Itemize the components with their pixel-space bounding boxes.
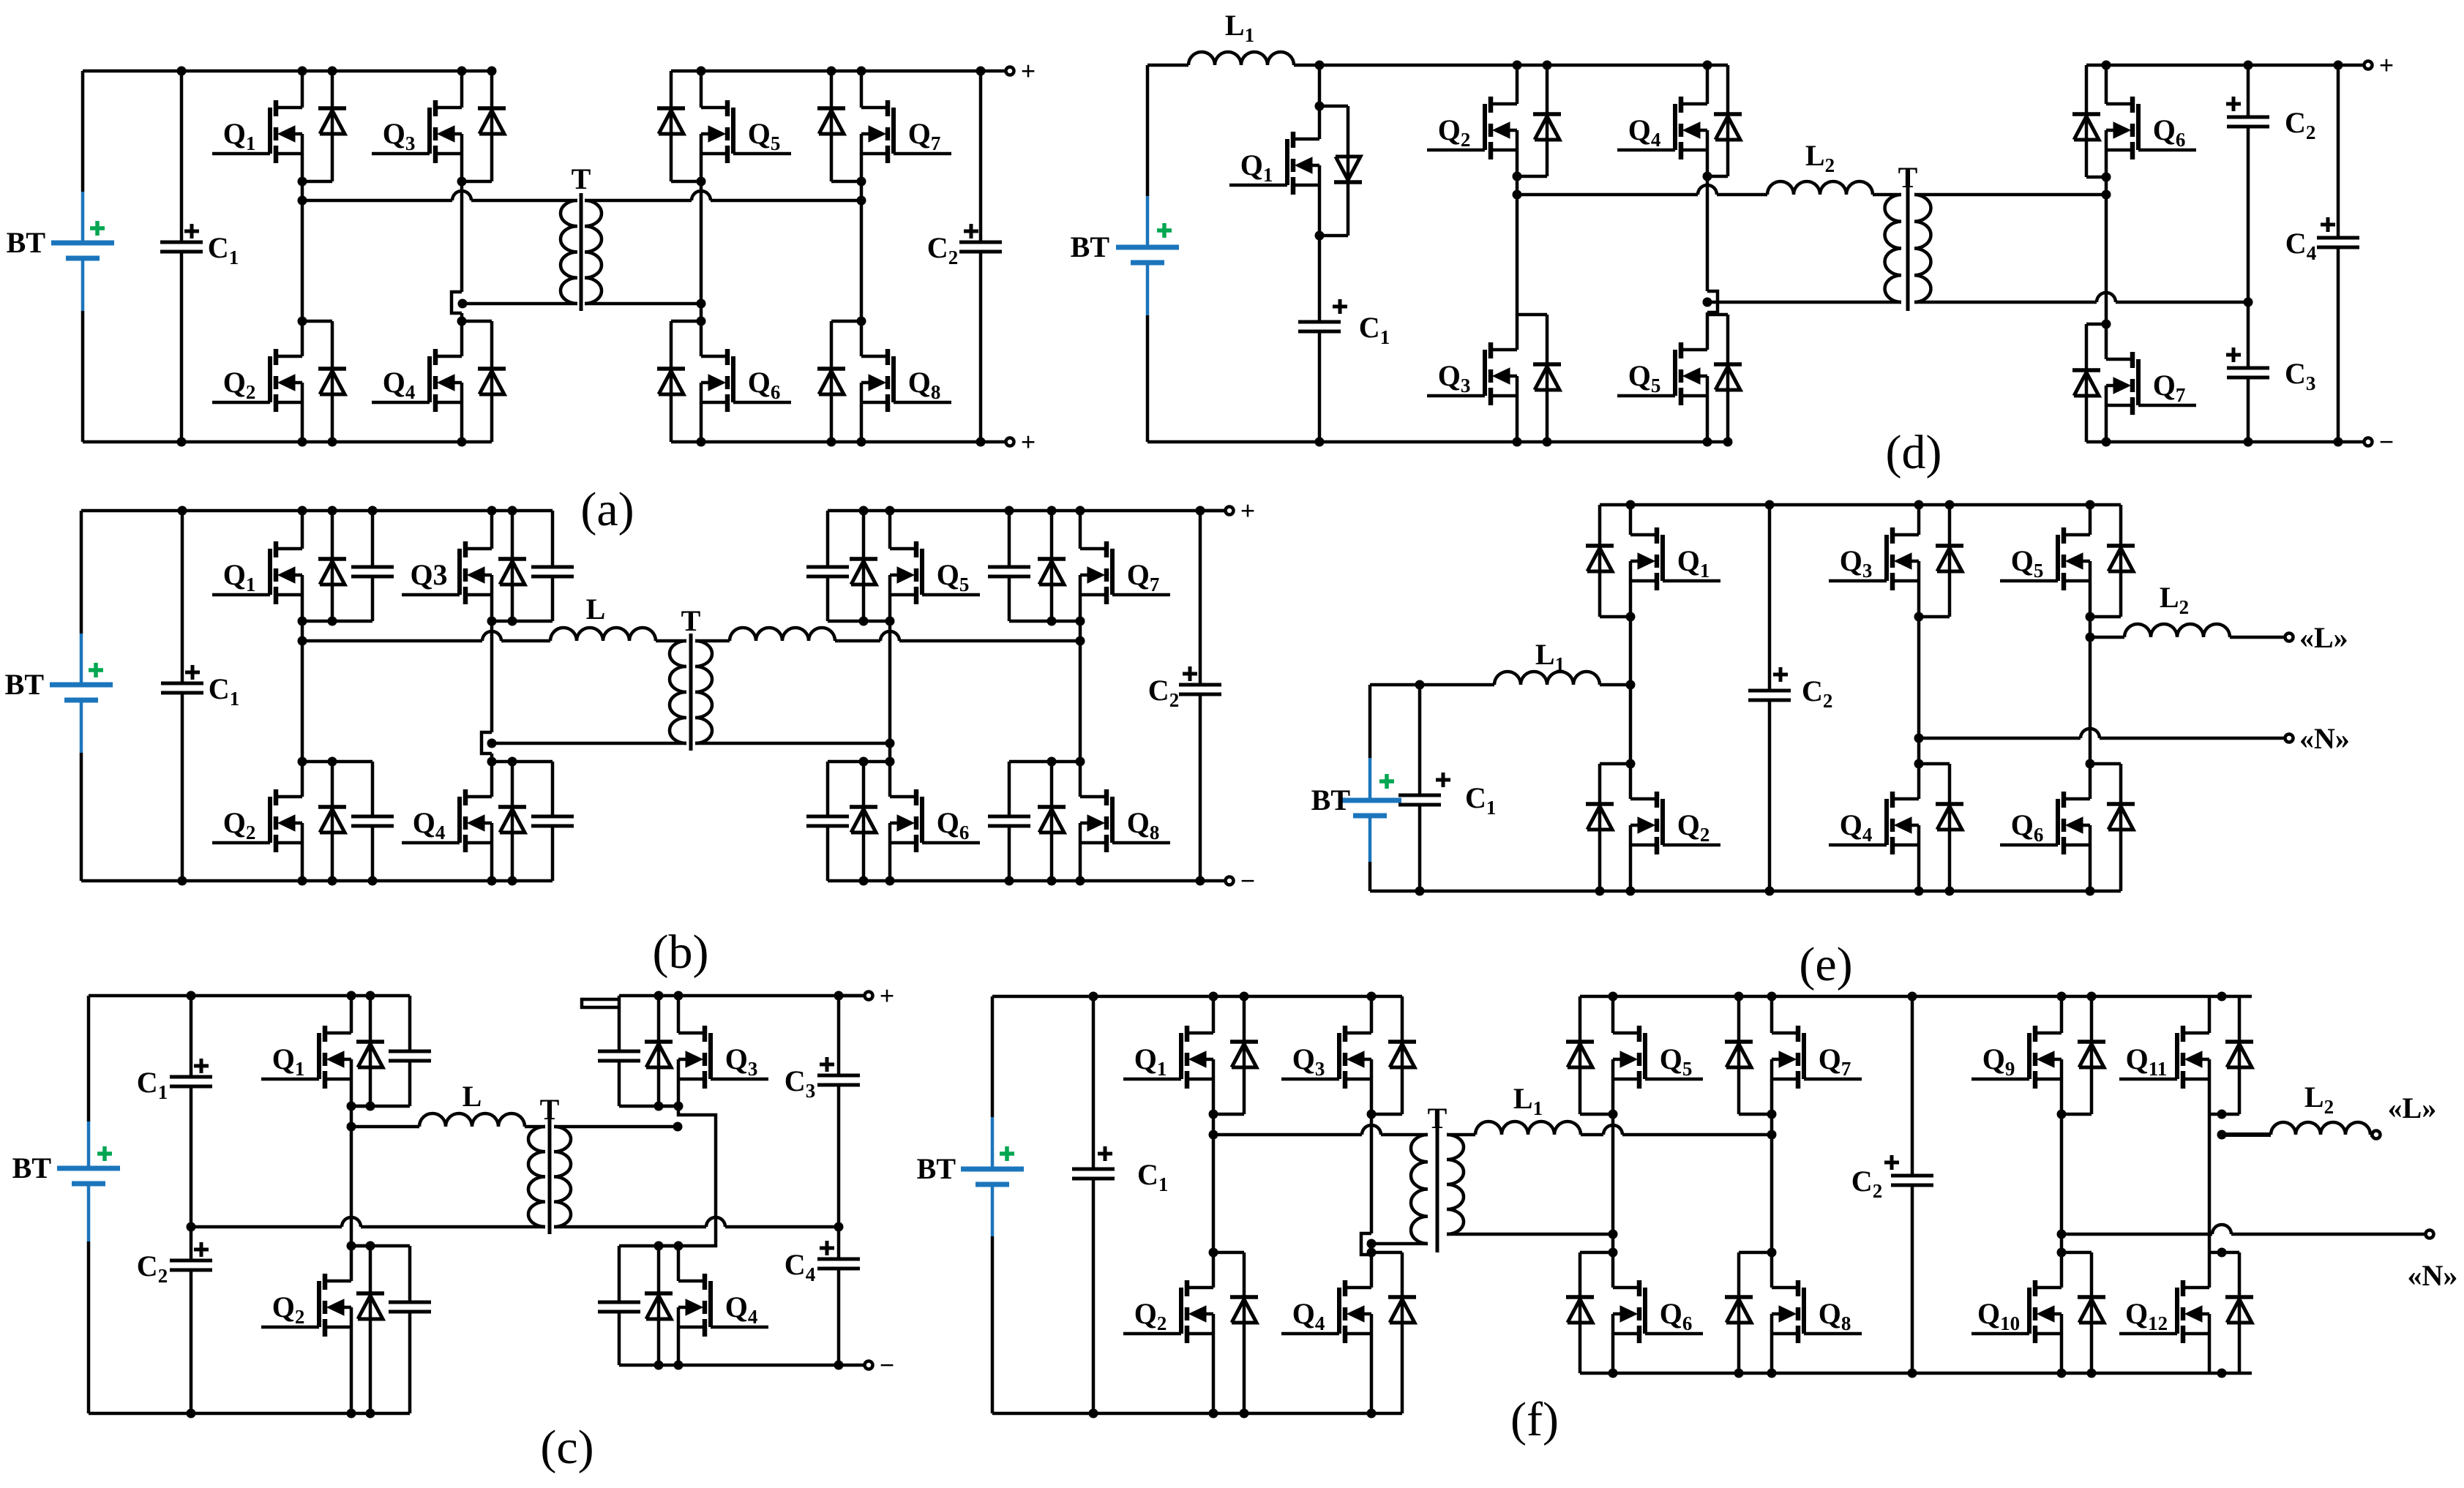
wire hop (706, 1217, 725, 1227)
diode of Q2 (d) (1517, 65, 1561, 176)
wire hop over leg (692, 191, 711, 200)
svg-text:−: − (2379, 427, 2394, 456)
diode of Q4 (a) (462, 321, 506, 442)
wire: (f) N lead (2062, 1233, 2212, 1236)
wire: (e) input lead (1370, 683, 1494, 687)
diode of Q3 (a) (462, 71, 506, 181)
svg-text:+: + (880, 981, 895, 1010)
wire hop (2097, 293, 2116, 302)
transformer T (b) (670, 604, 712, 751)
diode of Q1 (b) (318, 511, 346, 621)
junction dots (b) (178, 506, 1205, 886)
wire: (d) battery column (1146, 65, 1150, 196)
svg-text:Q3: Q3 (410, 558, 447, 591)
wire: (a) leg x=1177 (860, 71, 864, 108)
capacitor C1 (f) (1092, 996, 1096, 1169)
wire: (a) secondary top rail (671, 69, 1006, 73)
transistor Q4 (f) (1281, 1280, 1371, 1343)
wire: (d) secondary top rail (2086, 64, 2368, 67)
wire: (e) leg x=2228 (1629, 505, 1633, 535)
wire: (f) primary top rail (992, 995, 1402, 999)
transistor Q3 (a) (372, 100, 462, 163)
capacitor C2 (c) (190, 1086, 193, 1260)
transistor Q8 (a) (861, 349, 951, 412)
capacitor C1 (c) (190, 996, 193, 1077)
wire: (b) primary bottom rail (81, 879, 553, 883)
wire: (c) secondary top rail (619, 994, 864, 998)
transistor Q3 (f) (1281, 1026, 1371, 1089)
svg-text:(d): (d) (1886, 426, 1942, 479)
diode of Q4 (e) (1919, 764, 1963, 891)
svg-text:+: + (1021, 427, 1036, 456)
wire: (c) mid rail (191, 1225, 342, 1229)
inductor L2 (d) (1767, 139, 1873, 195)
wire: (d) leg x=2333 (1706, 65, 1710, 104)
transistor Q5 (f) (1613, 1026, 1703, 1089)
capacitor C1 (d) (1298, 299, 1390, 348)
terminal − (d) (2364, 438, 2373, 446)
diode of Q5 (b) (850, 511, 877, 621)
capacitor C1 (e) (1398, 773, 1496, 819)
wire: jog around transformer tap (482, 732, 492, 754)
wire: (e) battery column (1368, 685, 1372, 758)
diode of Q1 (d) (1334, 106, 1362, 236)
diode of Q4 (b) (498, 762, 526, 881)
transistor Q5 (b) (890, 541, 980, 604)
transistor Q1 (f) (1123, 1026, 1213, 1089)
svg-text:BT: BT (1071, 230, 1110, 263)
wire: (b) leg x=1476 (1079, 511, 1082, 549)
capacitor C2 (b) (1199, 511, 1202, 685)
snubber capacitor of Q8 (b) (988, 762, 1080, 881)
transistor Q3 (c) (678, 1026, 768, 1089)
svg-text:(c): (c) (540, 1421, 593, 1474)
wire: (f) leg x=3019 (2208, 996, 2212, 1033)
capacitor C1 (b) (161, 665, 239, 710)
transistor Q2 (e) (1630, 792, 1720, 854)
battery BT (d) (1071, 196, 1179, 315)
battery BT (c) (12, 1121, 120, 1241)
snubber capacitor of Q1 (b) (302, 511, 394, 621)
junction dots (a) (177, 67, 986, 447)
snubber capacitor of Q3 (b) (492, 511, 574, 621)
diode of Q3 (e) (1919, 505, 1963, 617)
wire: (f) secondary top rail (1580, 995, 2252, 999)
snubber capacitor of Q2 (c) (351, 1246, 431, 1413)
wire hop (1603, 1125, 1622, 1135)
transistor Q5 (d) (1617, 342, 1707, 405)
wire hop (880, 631, 899, 641)
wire: (c) phase lead + inductor L (351, 1125, 419, 1129)
wire: (d) secondary bottom lead (1914, 301, 2097, 304)
capacitor C1 (a) (160, 224, 239, 268)
svg-text:«L»: «L» (2299, 621, 2348, 654)
transistor Q4 (d) (1617, 97, 1707, 159)
snubber capacitor of Q1 (c) (351, 996, 431, 1106)
svg-text:−: − (880, 1350, 895, 1380)
transistor Q2 (d) (1427, 97, 1517, 159)
transistor Q11 (f) (2119, 1026, 2209, 1089)
snubber capacitor of Q3 (c) (598, 996, 678, 1106)
wire hop over leg (452, 191, 471, 200)
transistor Q8 (b) (1080, 789, 1170, 852)
diode of Q11 (f) (2209, 996, 2253, 1114)
wire: (a) secondary bottom rail (671, 440, 1006, 444)
capacitor C4 (d) (2285, 217, 2359, 264)
snubber capacitor of Q2 (b) (302, 762, 394, 881)
wire: (b) leg x=1216 (888, 511, 892, 549)
wire: diode jogs Q1 (d) (1319, 105, 1348, 108)
svg-text:−: − (1240, 866, 1256, 895)
wire hop (1362, 1125, 1381, 1135)
wire: (b) leg x=413 (301, 511, 304, 549)
wire: (b) secondary top lead with series bumps (695, 639, 730, 643)
wire: (b) primary return lead (492, 742, 686, 745)
diode of Q6 (f) (1566, 1252, 1613, 1373)
transistor Q1 (a) (212, 100, 302, 163)
diode of Q12 (f) (2209, 1252, 2253, 1373)
transistor Q2 (c) (261, 1274, 351, 1337)
terminal + (d) (2364, 61, 2373, 69)
wire: (c) secondary leg zigzag (678, 1106, 716, 1246)
transistor Q7 (d) (2106, 352, 2196, 415)
svg-text:T: T (1898, 161, 1918, 194)
wire: (d) primary top rail (1147, 64, 1188, 67)
snubber capacitor of Q7 (b) (988, 511, 1080, 621)
wire: (c) secondary top lead (554, 1125, 678, 1129)
capacitor C2 (e) (1748, 667, 1832, 712)
transistor Q12 (f) (2119, 1280, 2209, 1343)
terminal N (e) (2285, 734, 2293, 743)
capacitor C1 (f) (1072, 1146, 1168, 1195)
transistor Q9 (f) (1971, 1026, 2062, 1089)
capacitor C4 (d) (2337, 65, 2340, 238)
svg-text:BT: BT (7, 226, 46, 259)
wire: (e) top rail (1600, 503, 2121, 507)
diode of Q2 (f) (1213, 1252, 1258, 1413)
diode of Q8 (b) (1038, 762, 1066, 881)
inductor L1 (d) (1188, 9, 1294, 65)
diode of Q10 (f) (2062, 1252, 2105, 1373)
junction dots (f) (1089, 992, 2227, 1419)
wire: (c) output + (839, 994, 864, 998)
diode of Q8 (a) (817, 321, 861, 442)
transistor Q5 (a) (701, 100, 791, 163)
diode of Q5 (e) (2090, 505, 2135, 617)
wire: (a) leg x=413 (301, 71, 304, 108)
wire: (c) top rail primary (89, 994, 410, 998)
wire: (f) primary return lead (1371, 1242, 1428, 1246)
snubber capacitor of Q4 (c) (598, 1246, 678, 1365)
wire: (d) leg x=2073 (1516, 65, 1519, 104)
diode of Q3 (d) (1517, 315, 1561, 442)
transistor Q10 (f) (1971, 1280, 2062, 1343)
inductor L1 (f) (1475, 1082, 1581, 1135)
inductor L1 (e) (1494, 638, 1600, 685)
wire: (b) secondary bottom lead (695, 742, 890, 745)
wire: (d) phase lead (1517, 193, 1698, 197)
wire: (e) leg x=2622 (1917, 505, 1921, 535)
wire: (f) leg x=2204 (1611, 996, 1615, 1033)
diode of Q5 (d) (1707, 315, 1742, 442)
svg-text:BT: BT (1311, 784, 1351, 816)
transistor Q3 (d) (1427, 342, 1517, 405)
capacitor C3 (c) (784, 1057, 860, 1102)
wire hop (1698, 185, 1717, 195)
transistor Q1 (b) (212, 541, 302, 604)
terminal − (b) (1226, 877, 1234, 885)
svg-text:T: T (540, 1093, 560, 1126)
wire: (b) phase lead to L (302, 639, 482, 643)
wire: (c) leg x=480 (350, 996, 353, 1033)
transistor Q4 (e) (1829, 792, 1919, 854)
diode of Q4 (d) (1707, 65, 1742, 176)
diode of Q7 (d) (2072, 324, 2106, 442)
wire: jog around transformer tap (1707, 291, 1718, 312)
transistor Q6 (a) (701, 349, 791, 412)
transformer T (c) (528, 1093, 571, 1234)
svg-text:«N»: «N» (2299, 722, 2350, 755)
diode of Q5 (f) (1566, 996, 1613, 1114)
transistor Q4 (b) (402, 789, 492, 852)
transistor Q7 (a) (861, 100, 951, 163)
wire: (f) L2 lead (2222, 1132, 2271, 1137)
wire: (e) N lead (1919, 737, 2081, 740)
wire: (b) output top (1200, 509, 1225, 513)
diode of Q3 (c) (645, 996, 678, 1106)
transistor Q3 (b) (402, 541, 492, 604)
wire: (a) secondary top lead (585, 199, 692, 203)
transformer T (d) (1885, 161, 1931, 311)
svg-text:(b): (b) (653, 925, 709, 979)
diode of Q9 (f) (2062, 996, 2105, 1114)
svg-text:BT: BT (917, 1152, 956, 1185)
svg-text:«N»: «N» (2408, 1259, 2458, 1292)
capacitor C1 (e) (1418, 685, 1422, 795)
wire: (a) primary bottom lead (463, 302, 577, 306)
svg-text:+: + (1021, 56, 1036, 86)
transistor Q2 (f) (1123, 1280, 1213, 1343)
wire: (f) primary top lead (1213, 1133, 1362, 1137)
svg-text:BT: BT (5, 668, 45, 701)
wire: (f) secondary bottom rail (1580, 1372, 2252, 1375)
terminal + (c) (865, 992, 873, 1000)
transistor Q6 (b) (890, 789, 980, 852)
terminal L (f) (2373, 1131, 2381, 1139)
svg-text:L: L (463, 1080, 482, 1113)
diode of Q4 (f) (1371, 1252, 1416, 1413)
wire: (f) leg x=1874 (1370, 996, 1374, 1033)
svg-text:T: T (572, 162, 591, 195)
wire: (d) Q1 branch column (1318, 65, 1322, 139)
diode of Q1 (e) (1586, 505, 1630, 617)
diode of Q4 (c) (645, 1246, 678, 1365)
junction dots (c) (187, 991, 844, 1419)
wire: (f) leg x=2421 (1770, 996, 1774, 1033)
capacitor C1 (a) (180, 71, 184, 242)
wire: (b) leg x=672 (490, 511, 494, 549)
transistor Q7 (b) (1080, 541, 1170, 604)
diode of Q2 (c) (351, 1246, 384, 1413)
wire: (e) bottom rail (1370, 890, 2121, 893)
capacitor C2 (d) (2247, 65, 2250, 117)
transistor Q6 (d) (2106, 97, 2196, 159)
svg-text:T: T (1428, 1102, 1448, 1135)
diode of Q6 (e) (2090, 764, 2135, 891)
capacitor C3 (c) (837, 996, 841, 1075)
inductor L2 (f) (2271, 1081, 2370, 1135)
transistor Q8 (f) (1772, 1280, 1862, 1343)
diode of Q2 (e) (1586, 764, 1630, 891)
wire hop (342, 1217, 361, 1227)
diode of Q8 (f) (1725, 1252, 1772, 1373)
wire: (c) battery column (87, 996, 91, 1121)
svg-text:(e): (e) (1799, 938, 1852, 991)
wire: (d) primary return lead (1707, 301, 1901, 304)
svg-text:(a): (a) (580, 483, 634, 536)
diode of Q7 (f) (1725, 996, 1772, 1114)
terminal + (a) top (1006, 67, 1014, 75)
wire: (a) primary bottom rail (83, 440, 492, 444)
battery BT (e) (1311, 758, 1401, 862)
snubber capacitor of Q5 (b) (806, 511, 890, 621)
capacitor C1 (b) (181, 511, 184, 683)
terminal L (e) (2285, 634, 2293, 642)
inductor L2 (e) (2124, 581, 2230, 637)
wire: (c) bottom rail primary (89, 1412, 410, 1416)
wire: (d) bottom rail (1147, 440, 1728, 444)
diode of Q6 (a) (657, 321, 701, 442)
capacitor C3 (d) (2247, 302, 2250, 368)
svg-text:T: T (681, 604, 701, 637)
svg-text:«L»: «L» (2388, 1091, 2437, 1124)
capacitor C3 (d) (2226, 347, 2315, 394)
svg-text:BT: BT (12, 1151, 52, 1184)
capacitor C2 (b) (1148, 666, 1221, 711)
wire: L to transformer (656, 639, 686, 643)
snubber capacitor of Q4 (b) (492, 762, 574, 881)
terminal + (b) (1226, 507, 1234, 515)
wire: (f) battery column (991, 996, 995, 1117)
wire: (f) leg x=1658 (1212, 996, 1216, 1033)
transistor Q2 (a) (212, 349, 302, 412)
capacitor C4 (c) (784, 1241, 860, 1285)
diode of Q1 (f) (1213, 996, 1258, 1114)
terminal − (c) (865, 1361, 873, 1369)
capacitor C2 (d) (2226, 97, 2315, 143)
battery BT (a) (7, 192, 114, 311)
junction dots (e) (1415, 500, 2095, 896)
wire: (c) secondary bottom rail (619, 1364, 864, 1367)
wire: (c) secondary bottom lead (554, 1225, 706, 1229)
transistor Q1 (c) (261, 1026, 351, 1089)
wire: jog around transformer tap (452, 292, 462, 313)
capacitor C2 (a) (979, 71, 983, 242)
diode of Q2 (b) (318, 762, 346, 881)
wire: (f) primary bottom rail (992, 1412, 1402, 1416)
transformer T (f) (1411, 1102, 1464, 1252)
transistor Q4 (a) (372, 349, 462, 412)
transistor Q6 (e) (2000, 792, 2090, 854)
transistor Q6 (f) (1613, 1280, 1703, 1343)
terminal N (f) (2426, 1230, 2434, 1239)
wire: (d) secondary leg x=2878 (2105, 65, 2108, 104)
diode of Q7 (a) (817, 71, 861, 181)
wire: (a) secondary bottom lead (585, 302, 701, 306)
wire: jog around transformer tap (1361, 1233, 1371, 1255)
wire: (b) primary top rail (81, 509, 553, 513)
diode of Q6 (b) (850, 762, 877, 881)
diode of Q1 (c) (351, 996, 384, 1106)
diode of Q3 (b) (498, 511, 526, 621)
wire: (d) secondary top lead (1914, 193, 2106, 197)
junction dots (d) (1315, 61, 2343, 447)
terminal + (a) bottom (1006, 438, 1014, 446)
transistor Q7 (f) (1772, 1026, 1862, 1089)
wire hop (482, 631, 501, 641)
capacitor C4 (c) (837, 1227, 841, 1259)
capacitor C2 (c) (137, 1242, 212, 1287)
transistor Q3 (e) (1829, 527, 1919, 590)
inductor L (c) (419, 1080, 525, 1127)
capacitor C2 (f) (1911, 996, 1914, 1176)
wire: (e) leg x=2856 (2089, 505, 2092, 535)
wire: (a) primary top lead (302, 199, 452, 203)
wire: (b) secondary bottom rail (828, 879, 1225, 883)
diode of Q1 (a) (302, 71, 346, 181)
capacitor C2 (f) (1851, 1155, 1933, 1202)
wire: (b) battery column (80, 511, 83, 634)
svg-text:+: + (1240, 496, 1256, 525)
svg-text:+: + (2379, 50, 2394, 80)
wire hop (2081, 729, 2100, 738)
battery BT (f) (917, 1117, 1024, 1236)
diode of Q7 (b) (1038, 511, 1066, 621)
transformer T (a) (561, 162, 602, 311)
transistor Q1 (d) (1229, 132, 1319, 195)
wire: (f) secondary bottom lead (1447, 1233, 1613, 1236)
wire hop (2212, 1225, 2231, 1234)
wire: (a) primary top rail (83, 69, 492, 73)
wire: (f) secondary top lead (1447, 1133, 1475, 1137)
capacitor C2 (a) (927, 224, 1002, 268)
battery BT (b) (5, 634, 113, 753)
transistor Q1 (e) (1630, 527, 1720, 590)
wire: (a) leg x=958 (700, 71, 703, 108)
diode of Q2 (a) (302, 321, 346, 442)
svg-text:L: L (586, 593, 606, 625)
wire: (a) leg x=631 (460, 71, 464, 108)
svg-text:(f): (f) (1510, 1393, 1559, 1446)
diode of Q5 (a) (657, 71, 701, 181)
diode of Q3 (f) (1371, 996, 1416, 1114)
wire: (f) leg x=2817 (2060, 996, 2064, 1033)
transistor Q5 (e) (2000, 527, 2090, 590)
wire: (a) battery column (81, 71, 85, 192)
transistor Q4 (c) (678, 1274, 768, 1337)
capacitor C2 (e) (1768, 505, 1772, 691)
transistor Q2 (b) (212, 789, 302, 852)
snubber capacitor of Q6 (b) (806, 762, 890, 881)
tab jog on rail end (582, 999, 619, 1007)
capacitor C1 (c) (137, 1059, 212, 1103)
inductor L (b) (550, 593, 656, 641)
diode of Q6 (d) (2072, 65, 2106, 177)
wire: (e) L2 lead (2090, 636, 2124, 639)
wire: (b) secondary top rail (828, 509, 1225, 513)
